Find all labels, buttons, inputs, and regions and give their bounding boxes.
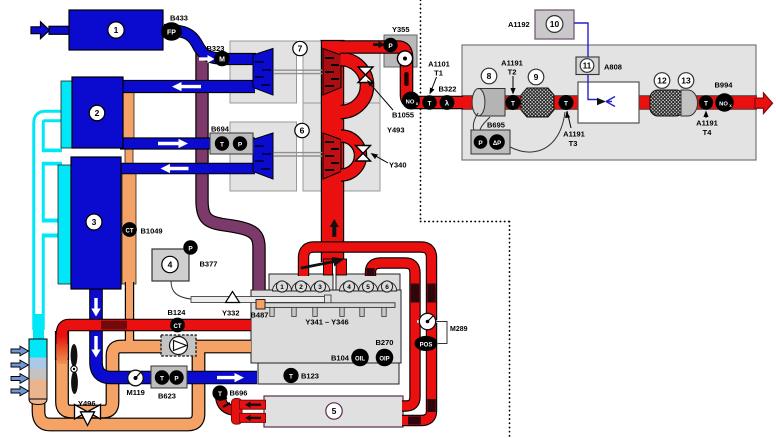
svg-text:T: T	[220, 141, 224, 148]
sensor box B694	[210, 133, 253, 154]
sensor OIP B270	[376, 349, 394, 367]
svg-text:3: 3	[92, 217, 97, 227]
svg-text:B377: B377	[200, 260, 218, 269]
label B124	[168, 308, 187, 317]
svg-text:11: 11	[583, 62, 592, 71]
svg-text:CT: CT	[174, 324, 182, 330]
red oil pipe B696 to oil cooler fork	[219, 392, 266, 424]
shaft turbo 6	[274, 153, 323, 156]
svg-text:FP: FP	[167, 29, 176, 36]
svg-text:6: 6	[385, 284, 389, 291]
svg-text:Y493: Y493	[387, 126, 405, 135]
muffler (component 13)	[678, 73, 697, 116]
svg-text:3: 3	[318, 284, 322, 291]
crankcase fan M289 symbol	[417, 313, 447, 343]
label M289	[450, 326, 468, 333]
svg-text:4: 4	[168, 260, 173, 270]
DEF injector A808 (component 11)	[576, 57, 599, 75]
label B694	[211, 125, 230, 134]
svg-text:B322: B322	[439, 85, 457, 94]
svg-text:T2: T2	[508, 68, 517, 77]
fan motor M119	[128, 370, 144, 386]
label Y340 with leader	[371, 153, 407, 170]
svg-text:T4: T4	[703, 128, 713, 137]
svg-text:A1101: A1101	[428, 60, 450, 69]
svg-text:6: 6	[300, 126, 305, 136]
radiator coolant strip (cyan, component 3)	[58, 165, 71, 284]
label B104	[331, 354, 350, 363]
svg-text:A1192: A1192	[508, 20, 530, 29]
svg-text:8: 8	[487, 71, 492, 81]
exhaust aftertreatment panel	[462, 45, 756, 160]
black flow arrow into Y355	[373, 41, 385, 49]
DEF control unit A1192 (component 10)	[535, 10, 574, 39]
blue pipe: intercooler 2 to compressor 6	[120, 137, 255, 149]
sensor P B377	[183, 240, 197, 254]
label A1101 T1 with leader	[428, 60, 450, 95]
injectors Y341-Y346	[270, 307, 386, 316]
EGR valve disc of Y355	[397, 51, 412, 66]
turbine turbo 6	[323, 133, 341, 179]
sensor P of B623	[169, 370, 183, 384]
wastegate valve Y340	[356, 146, 371, 162]
svg-text:T: T	[218, 391, 222, 398]
svg-text:9: 9	[534, 72, 539, 82]
sensor dP of B695	[489, 134, 505, 150]
radiator	[29, 339, 47, 405]
fuel metering valve Y332	[226, 292, 240, 303]
sensor T B123	[283, 368, 298, 383]
wastegate bypass arc turbo 6	[341, 136, 361, 175]
svg-text:B323: B323	[207, 44, 225, 53]
label B323	[207, 44, 225, 53]
circle label 6	[295, 123, 309, 137]
sensor T1	[422, 95, 436, 109]
svg-text:POS: POS	[420, 342, 433, 348]
compressor turbo 6	[253, 133, 273, 179]
sensor OIL B104	[351, 349, 369, 367]
differential pressure sensor B695	[471, 112, 565, 154]
red coolant pipe engine to thermostat	[56, 321, 251, 364]
engine cylinder head right bank	[336, 274, 400, 291]
svg-text:T1: T1	[434, 69, 443, 78]
svg-text:2: 2	[299, 284, 303, 291]
air filter (component 1)	[69, 10, 163, 50]
svg-text:M: M	[219, 57, 225, 64]
sensor POS of M289	[415, 336, 438, 351]
label A808	[604, 63, 622, 72]
red intake manifold pipe (outer) with riser to oil cooler	[304, 247, 432, 421]
label B695	[487, 121, 505, 130]
svg-text:B696: B696	[230, 389, 248, 398]
svg-text:M119: M119	[127, 388, 145, 397]
svg-text:A808: A808	[604, 63, 622, 72]
svg-text:CT: CT	[126, 228, 134, 234]
fuel supply line	[191, 295, 331, 305]
svg-text:P: P	[238, 141, 243, 148]
svg-text:B694: B694	[211, 125, 230, 134]
wastegate valve Y493	[358, 67, 373, 83]
oil cooler (component 5) number	[326, 403, 342, 419]
engine cylinder caps and numbers	[273, 281, 397, 292]
svg-text:A1191: A1191	[563, 130, 585, 139]
label B994	[715, 81, 734, 90]
label A1192	[508, 20, 530, 29]
purple charge pipe	[202, 53, 259, 290]
svg-text:B104: B104	[331, 354, 350, 363]
label Y493	[387, 126, 405, 135]
fuel pump assembly (component 4, B377)	[152, 249, 189, 281]
sensor box B623	[151, 366, 187, 388]
svg-text:T: T	[704, 100, 708, 107]
blue coolant pipe: component 3 down to engine	[96, 289, 257, 378]
sensor P of B695	[474, 135, 488, 149]
label A1191 T3 with leader	[563, 111, 585, 148]
svg-text:B487: B487	[251, 311, 269, 320]
cooling fan	[71, 344, 78, 394]
SCR catalyst (component 12)	[650, 73, 684, 116]
sensor T4	[699, 95, 713, 109]
blue pipe: compressor 6 to charge cooler 3	[120, 163, 255, 175]
NOx sensor pre-cat	[402, 92, 420, 110]
label B377	[200, 260, 218, 269]
red exhaust main vertical pipe	[321, 41, 347, 275]
sensor CT B1049	[122, 222, 137, 237]
svg-text:B123: B123	[301, 372, 319, 381]
Y496 thermostat 3-way valve	[75, 405, 101, 426]
EGR valve assembly Y355	[384, 35, 417, 67]
label A1191 T4 with leader	[696, 111, 718, 138]
svg-text:P: P	[174, 375, 179, 382]
svg-text:4: 4	[347, 284, 351, 291]
mixing chamber box	[578, 82, 639, 123]
svg-text:NO: NO	[719, 101, 728, 107]
svg-text:ΔP: ΔP	[493, 141, 501, 147]
label Y496	[78, 399, 96, 408]
blue pipe: compressor 7 to intercooler 2	[121, 80, 255, 93]
wastegate bypass arc turbo 7	[341, 59, 368, 112]
DEF wiring	[574, 23, 588, 82]
sensor T3	[559, 95, 574, 110]
label M119	[127, 388, 145, 397]
svg-text:P: P	[478, 140, 483, 147]
sensor CT B124	[170, 318, 185, 333]
engine oil pan strip	[258, 363, 399, 384]
coolant expansion pipe (hollow cyan)	[33, 116, 62, 340]
dotted system boundary	[421, 0, 510, 438]
svg-text:B433: B433	[170, 14, 188, 23]
svg-text:Y332: Y332	[222, 309, 240, 318]
NOx sensor B994	[715, 93, 733, 111]
turbocharger 6 housing	[230, 103, 380, 191]
svg-text:T3: T3	[569, 139, 578, 148]
svg-text:B270: B270	[376, 338, 394, 347]
svg-text:Y340: Y340	[389, 161, 407, 170]
svg-text:B1055: B1055	[392, 111, 414, 120]
intake inlet arrow	[31, 22, 70, 39]
label B322	[439, 85, 457, 94]
svg-text:B124: B124	[168, 308, 187, 317]
svg-text:13: 13	[681, 76, 691, 86]
turbine turbo 7	[323, 49, 341, 96]
compressor turbo 7	[253, 49, 273, 96]
svg-text:A1191: A1191	[501, 59, 523, 68]
svg-text:5: 5	[366, 284, 370, 291]
svg-text:B623: B623	[158, 392, 176, 401]
svg-text:Y496: Y496	[78, 399, 96, 408]
diesel particulate filter (component 9)	[521, 69, 554, 117]
sensor FP B433	[161, 22, 182, 40]
svg-text:P: P	[188, 245, 193, 252]
sensor T B696	[212, 385, 227, 400]
svg-text:T: T	[564, 100, 568, 107]
oxidation catalyst (component 8)	[472, 68, 505, 116]
intercooler (component 2)	[72, 77, 123, 148]
shaft turbo 7	[274, 70, 323, 73]
label B1049	[141, 227, 163, 236]
svg-text:T: T	[160, 375, 164, 382]
sensor T of B623	[155, 370, 169, 384]
red exhaust pipe through aftertreatment panel	[462, 95, 757, 110]
svg-text:B1049: B1049	[141, 227, 163, 236]
svg-text:P: P	[388, 43, 393, 50]
turbocharger 7 housing	[230, 41, 380, 103]
label B623	[158, 392, 176, 401]
diagonal intake flow arrow	[301, 257, 345, 270]
label B487	[251, 311, 269, 320]
svg-text:T: T	[428, 100, 432, 107]
label Y341-Y346	[305, 318, 348, 327]
charge cooler (component 3)	[71, 157, 121, 289]
svg-text:OIL: OIL	[355, 356, 365, 362]
svg-text:Y341 – Y346: Y341 – Y346	[305, 318, 348, 327]
sensor P of Y355	[383, 38, 397, 52]
label B123	[301, 372, 319, 381]
airflow arrows into radiator	[11, 346, 29, 396]
label B696	[230, 389, 248, 398]
svg-text:12: 12	[657, 76, 667, 86]
orange stub between components 2 and 3	[125, 148, 133, 165]
component 5 oil cooler box	[264, 396, 403, 427]
svg-text:OIP: OIP	[379, 356, 389, 362]
orange coolant strip beside component 2	[123, 90, 134, 139]
sensor T2	[506, 95, 521, 110]
fuel pressure sensor B487	[256, 300, 265, 310]
engine cylinder head left bank	[269, 274, 333, 291]
label Y332	[222, 309, 240, 318]
throttle M B323	[214, 51, 230, 67]
svg-text:Y355: Y355	[392, 25, 410, 34]
label A1191 T2 with leader	[501, 59, 523, 95]
svg-text:1: 1	[280, 284, 284, 291]
lambda sensor B322	[440, 95, 455, 110]
red exhaust pipe turbo via Y355 down to NOx	[340, 47, 463, 103]
label B1055 with leader	[367, 80, 414, 120]
dark pipe-crossing marks on risers	[366, 268, 435, 425]
blue pipe: throttle to compressor 7	[222, 53, 256, 65]
svg-text:1: 1	[114, 25, 119, 35]
coolant pump box	[161, 335, 196, 356]
svg-text:B994: B994	[715, 81, 734, 90]
red intake manifold pipe (inner) with riser to oil cooler	[371, 263, 416, 406]
label B270	[376, 338, 394, 347]
svg-text:T: T	[289, 373, 293, 380]
label Y355	[392, 25, 410, 34]
engine block	[251, 290, 401, 363]
svg-text:NO: NO	[406, 99, 415, 105]
sensor T of B694	[215, 136, 229, 150]
fuel rail	[262, 303, 395, 308]
label B433	[170, 14, 188, 23]
blue pipe: air filter to throttle M	[164, 30, 222, 59]
up arrow in exhaust pipe	[330, 219, 339, 237]
orange coolant pipes (pump loop and radiator loop)	[39, 282, 252, 425]
circle label 7	[293, 41, 307, 55]
sensor P of B694	[233, 136, 247, 150]
svg-text:7: 7	[298, 44, 303, 54]
svg-text:M289: M289	[450, 326, 468, 333]
intercooler coolant strip (cyan, component 2)	[61, 81, 72, 148]
tailpipe exit arrow	[755, 93, 773, 113]
svg-text:10: 10	[550, 19, 560, 29]
white flow arrows on blue pipes	[91, 55, 244, 382]
wire from fuel pump 4 to fuel line	[171, 281, 191, 299]
svg-text:5: 5	[332, 406, 337, 416]
svg-text:B695: B695	[487, 121, 505, 130]
orange coolant strip beside component 3	[122, 172, 136, 284]
svg-text:T: T	[511, 100, 515, 107]
svg-text:A1191: A1191	[696, 119, 718, 128]
svg-text:2: 2	[95, 108, 100, 118]
